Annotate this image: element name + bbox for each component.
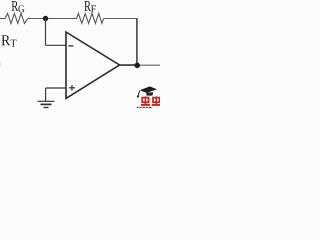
wire input left	[0, 18, 5, 20]
label RT	[1, 35, 16, 46]
op-amp plus pin label	[69, 87, 75, 89]
wire output	[119, 64, 137, 66]
wire RF to corner	[104, 18, 137, 20]
watermark logo cap	[137, 86, 157, 97]
resistor RF	[77, 13, 104, 23]
label RF	[84, 1, 96, 12]
wire ground riser	[45, 88, 47, 101]
wire inverting input horizontal	[46, 44, 67, 46]
wire noninverting input horizontal	[46, 87, 66, 89]
watermark red character 2	[152, 96, 161, 105]
node output junction dot	[134, 63, 140, 69]
op-amp U1	[66, 32, 120, 98]
label RG	[12, 1, 25, 12]
watermark url text	[137, 106, 152, 108]
wire inverting input vertical	[45, 19, 47, 46]
op-amp minus pin label	[68, 45, 73, 47]
node junction dot	[43, 16, 48, 21]
resistor RG	[5, 13, 28, 23]
faint edge artifact	[0, 62, 1, 67]
ground	[38, 100, 55, 102]
wire feedback vertical	[136, 18, 138, 65]
watermark red character 1	[141, 96, 150, 105]
wire RG to RF	[28, 18, 77, 20]
